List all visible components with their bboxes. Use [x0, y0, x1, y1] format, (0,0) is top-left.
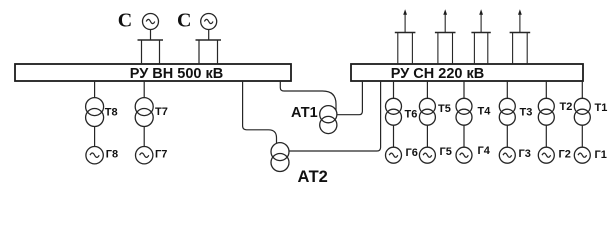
transformer T7 [135, 81, 168, 127]
outgoing line W2 [435, 9, 456, 64]
autotransformer AT1 [291, 105, 337, 134]
svg-text:РУ СН 220 кВ: РУ СН 220 кВ [391, 66, 484, 82]
outgoing line W3 [471, 9, 490, 64]
wire 500kV bus to AT2 [243, 81, 277, 143]
wire AT2 to 220kV bus [289, 81, 381, 151]
svg-text:Г7: Г7 [155, 149, 167, 161]
transformer T6 [386, 81, 418, 125]
svg-text:АТ2: АТ2 [298, 168, 328, 186]
svg-text:Г5: Г5 [440, 146, 452, 158]
svg-text:Г6: Г6 [406, 147, 418, 159]
generator G2 [538, 125, 571, 163]
transformer T5 [419, 81, 450, 125]
transformer T3 [499, 81, 532, 125]
generator G6 [386, 125, 418, 163]
autotransformer AT2 [271, 143, 328, 186]
system source C2 [177, 10, 221, 64]
svg-text:Т4: Т4 [478, 106, 492, 118]
generator G5 [419, 125, 451, 163]
svg-text:С: С [118, 10, 132, 32]
bus РУ ВН 500 кВ [15, 64, 291, 82]
svg-text:РУ ВН 500 кВ: РУ ВН 500 кВ [130, 66, 223, 82]
svg-text:Т3: Т3 [520, 107, 533, 119]
svg-text:АТ1: АТ1 [291, 105, 318, 121]
outgoing line W1 [395, 9, 416, 64]
transformer T8 [86, 81, 118, 127]
transformer T1 [574, 81, 607, 125]
wire AT1 to 220kV bus [337, 81, 363, 115]
outgoing line W4 [510, 9, 531, 64]
svg-text:Т2: Т2 [560, 101, 573, 113]
svg-text:Г1: Г1 [595, 149, 607, 161]
generator G1 [574, 125, 607, 163]
svg-text:Г8: Г8 [106, 149, 118, 161]
svg-text:С: С [177, 10, 191, 32]
bus РУ СН 220 кВ [351, 64, 583, 82]
svg-text:Т5: Т5 [438, 103, 451, 115]
svg-text:Г4: Г4 [478, 145, 491, 157]
generator G3 [499, 125, 531, 163]
system source C1 [118, 10, 163, 64]
svg-text:Т6: Т6 [405, 109, 418, 121]
generator G8 [86, 127, 118, 164]
svg-text:Т1: Т1 [595, 102, 608, 114]
wire 500kV bus to AT1 [280, 81, 336, 110]
generator G4 [456, 125, 491, 163]
svg-text:Т8: Т8 [105, 107, 118, 119]
generator G7 [136, 127, 168, 164]
transformer T4 [456, 81, 491, 125]
svg-text:Г3: Г3 [519, 148, 531, 160]
svg-text:Г2: Г2 [559, 149, 571, 161]
svg-text:Т7: Т7 [155, 106, 168, 118]
transformer T2 [538, 81, 572, 125]
